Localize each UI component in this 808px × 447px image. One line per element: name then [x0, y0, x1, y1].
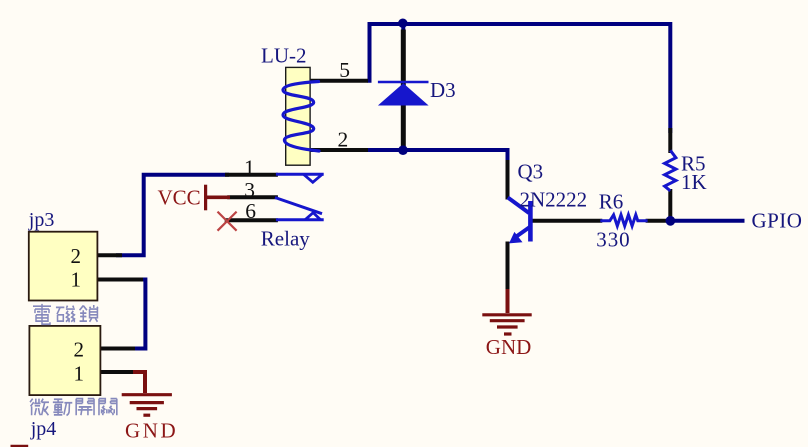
svg-text:LU-2: LU-2 — [261, 44, 307, 68]
svg-text:6: 6 — [245, 199, 256, 223]
svg-text:jp4: jp4 — [30, 418, 57, 440]
svg-text:R6: R6 — [599, 189, 624, 213]
svg-text:330: 330 — [596, 228, 630, 252]
svg-text:D3: D3 — [430, 78, 456, 102]
svg-text:VCC: VCC — [158, 186, 201, 210]
svg-text:GND: GND — [486, 335, 532, 359]
svg-text:2: 2 — [74, 338, 85, 362]
svg-text:GND: GND — [125, 418, 178, 442]
svg-text:2N2222: 2N2222 — [520, 188, 588, 212]
svg-text:1: 1 — [74, 361, 85, 385]
svg-text:Relay: Relay — [261, 227, 310, 251]
svg-text:GPIO: GPIO — [752, 209, 803, 233]
svg-text:2: 2 — [338, 128, 349, 152]
svg-text:5: 5 — [339, 58, 350, 82]
svg-text:1K: 1K — [681, 170, 707, 194]
svg-text:Q3: Q3 — [518, 160, 544, 184]
svg-text:1: 1 — [244, 155, 255, 179]
svg-text:jp3: jp3 — [28, 209, 55, 231]
svg-text:1: 1 — [71, 268, 82, 292]
svg-text:2: 2 — [71, 244, 82, 268]
